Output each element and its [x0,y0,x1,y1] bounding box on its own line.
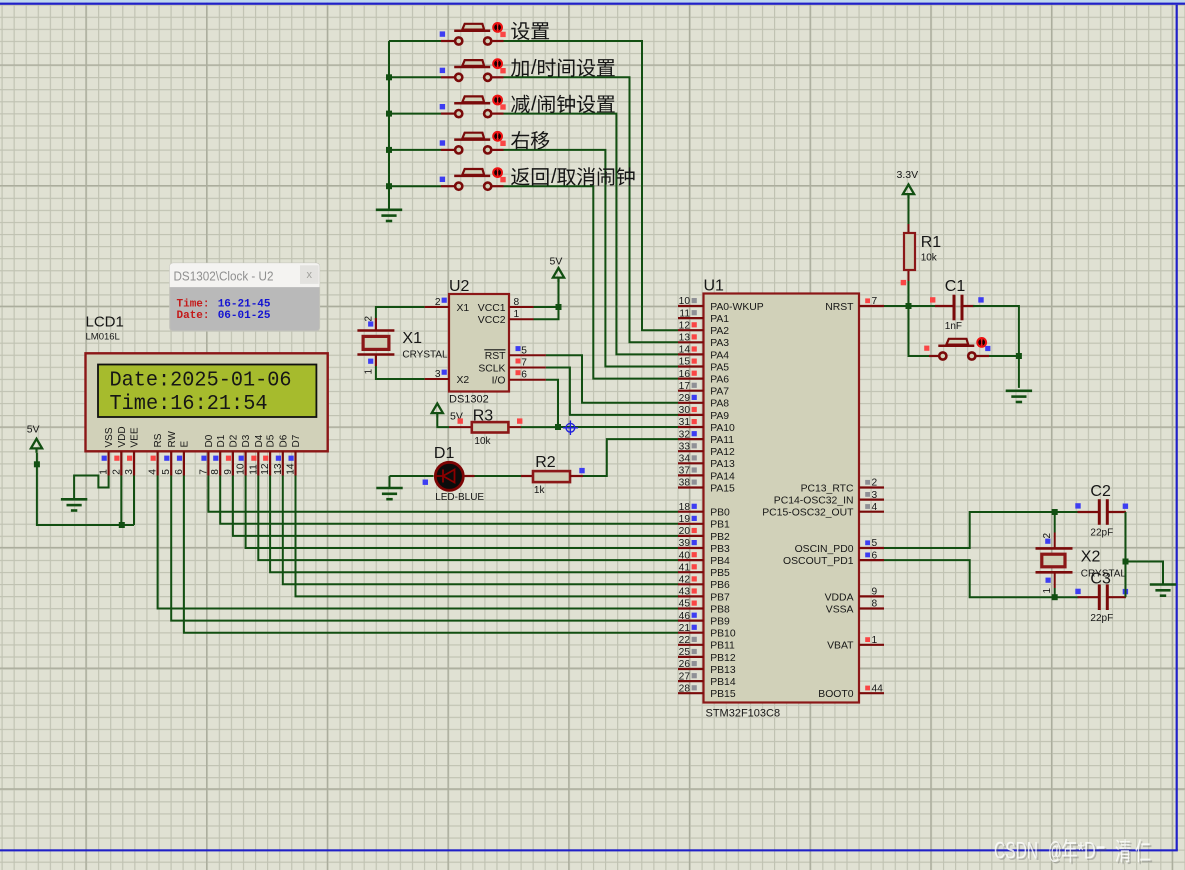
svg-text:PB15: PB15 [710,689,736,700]
wire X2 pin2 up [1054,512,1056,533]
svg-text:1: 1 [872,635,878,646]
wire NRST to C1 [884,305,936,307]
svg-text:27: 27 [679,671,691,682]
watermark CSDN [996,839,1152,866]
svg-text:VEE: VEE [130,427,141,447]
LCD pin D2 (9) [223,434,240,475]
svg-text:41: 41 [679,562,691,573]
C2 squares [1075,503,1128,509]
label 减/闹钟设置 [511,94,615,116]
svg-text:26: 26 [679,659,691,670]
svg-text:E: E [180,441,191,448]
node I/O R3 junction [555,424,561,430]
svg-text:39: 39 [679,538,691,549]
svg-text:DS1302: DS1302 [449,394,489,406]
svg-text:D4: D4 [254,434,265,447]
svg-text:12: 12 [679,320,691,331]
svg-text:LM016L: LM016L [86,332,120,343]
LCD pin D1 (8) [210,434,227,475]
U1 pin VSSA (8) [826,599,884,616]
svg-text:19: 19 [679,514,691,525]
svg-text:PA15: PA15 [710,483,735,494]
svg-text:10k: 10k [474,436,491,447]
sheet border top strip [0,0,1185,3]
svg-text:STM32F103C8: STM32F103C8 [706,708,781,720]
wire RST to PA8 [546,355,678,403]
svg-text:1: 1 [514,309,520,320]
svg-text:VDDA: VDDA [825,592,854,603]
wire ground to D1 [390,475,434,477]
wire button2 left [389,76,441,78]
cursor crosshair [563,421,578,436]
svg-text:PB12: PB12 [710,653,736,664]
svg-text:/: / [531,94,537,116]
svg-text:13: 13 [273,463,284,475]
U1 pin PA15 (38) [678,478,735,495]
node marker red button5 [500,177,505,182]
svg-text:1: 1 [364,369,375,375]
svg-text:PC13_RTC: PC13_RTC [801,483,854,494]
svg-text:PA13: PA13 [710,459,735,470]
svg-text:PB10: PB10 [710,629,736,640]
svg-text:8: 8 [872,599,878,610]
R3 squares [458,418,523,423]
node marker blue button3 [440,104,445,109]
U2 pin state squares [442,298,521,376]
svg-text:PA7: PA7 [710,387,729,398]
resistor R2 right lead [570,475,583,477]
wire D1 to R2 [475,475,522,477]
X2 pin squares [1045,539,1051,583]
crystal X1 [357,318,394,366]
svg-text:PA3: PA3 [710,338,729,349]
wire VCC1 to 5V [534,282,559,307]
wire SCLK to PA9 [546,368,678,415]
U1 pin PA13 (34) [678,454,735,471]
svg-text:D1: D1 [434,445,455,462]
svg-text:3.3V: 3.3V [897,169,919,181]
wire X1 top to U2 [376,307,425,318]
svg-text:29: 29 [679,393,691,404]
svg-text:PA12: PA12 [710,447,735,458]
svg-text:C3: C3 [1090,571,1111,588]
R2 left lead [521,475,533,477]
IC U1 STM32F103C8 body [704,294,860,703]
svg-text:5V: 5V [27,424,40,436]
label 返回/取消闹钟 [511,166,634,188]
node marker blue button4 [440,140,445,145]
svg-text:R2: R2 [535,454,556,471]
power 5V LCD [27,424,42,453]
U1 pin PB11 (22) [678,635,735,652]
svg-text:2: 2 [435,297,441,308]
wire VCC2 join [534,307,559,319]
svg-text:RST: RST [485,351,506,362]
wire X2 pin1 down [1054,588,1056,597]
U1 pin PA1 (11) [678,308,729,325]
U1 pin PA9 (30) [678,405,729,422]
popup time date text [177,298,271,322]
wire R1 to NRST node [908,281,910,306]
wire X1 bottom to U2 [376,366,425,379]
wire LCD RS to U1 [158,476,678,609]
wire C1 right down [973,306,1019,388]
svg-text:PA2: PA2 [710,326,729,337]
U1 pin PB6 (42) [678,575,730,592]
node marker blue button5 [440,177,445,182]
svg-text:42: 42 [679,575,691,586]
U1 pin PB8 (45) [678,599,730,616]
svg-text:1: 1 [99,469,110,475]
wire LCD D1 to U1 [220,476,678,524]
U1 pin PB5 (41) [678,562,730,579]
wire 5V to R3 [437,418,449,428]
resistor R2 [533,471,570,482]
ground D1 [376,476,402,499]
svg-text:SCLK: SCLK [478,363,505,374]
LCD pin VDD (2) [111,426,128,475]
svg-text:D6: D6 [278,434,289,447]
power 3.3V [897,169,919,199]
LCD pin D3 (10) [236,434,253,475]
svg-text:CRYSTAL: CRYSTAL [402,350,448,361]
sheet border right edge [1176,5,1178,850]
wire button left bus vertical [388,41,390,210]
push button SW5 [441,167,504,190]
LCD pin VEE (3) [124,427,141,475]
U1 pin OSCOUT_PD1 (6) [783,550,884,567]
wire button3 to PA4 [504,114,679,355]
wire VEE down [133,476,135,526]
svg-text:PC14-OSC32_IN: PC14-OSC32_IN [774,496,854,507]
svg-text:1nF: 1nF [945,321,962,332]
svg-text:X2: X2 [1081,549,1101,566]
reset button squares [924,346,990,352]
resistor R3 leads [449,426,472,428]
node NRST junction [906,303,912,309]
U2 pin names [457,303,507,387]
node VDD junction [119,522,125,528]
wire VSS to ground [74,476,109,500]
svg-text:*D: *D [1078,837,1096,864]
svg-text:PB7: PB7 [710,592,730,603]
node bus junctions [386,74,392,189]
svg-text:D3: D3 [241,434,252,447]
wire 5V to VDD VEE [37,453,134,525]
svg-text:PA1: PA1 [710,314,729,325]
popup DS1302 Clock window [170,263,320,331]
svg-text:BOOT0: BOOT0 [818,689,853,700]
svg-text:RS: RS [153,433,164,447]
node X2 top junction [1052,509,1058,515]
wire button5 left [389,185,441,187]
wire button4 to PA5 [504,150,679,367]
U1 pin PB12 (25) [678,647,736,664]
power 5V U2 [550,256,565,283]
svg-text:45: 45 [679,599,691,610]
svg-text:33: 33 [679,441,691,452]
U1 pin VBAT (1) [827,635,884,652]
U1 pin PA5 (15) [678,357,729,374]
svg-text:10: 10 [679,296,691,307]
node marker red button1 [500,32,505,37]
U1 pin PB15 (28) [678,683,736,700]
wire C2 right down [1125,512,1127,562]
U1 pin PC14-OSC32_IN (3) [774,490,884,507]
U2 pin SCLK (7) [509,367,546,369]
node X2 bottom junction [1052,594,1058,600]
svg-text:D1: D1 [216,434,227,447]
svg-text:4: 4 [872,502,878,513]
LCD pin D7 (14) [286,434,303,475]
node marker blue button1 [440,31,445,36]
svg-text:C2: C2 [1090,483,1111,500]
svg-text:9: 9 [872,587,878,598]
svg-text:PB8: PB8 [710,604,730,615]
svg-text:Time:: Time: [177,298,210,310]
svg-text:VDD: VDD [117,426,128,447]
svg-text:31: 31 [679,417,691,428]
wire D1 lead right [463,475,475,477]
svg-text:44: 44 [872,683,884,694]
wire LCD RW to U1 [171,476,678,621]
svg-text:PB0: PB0 [710,508,730,519]
svg-text:/: / [551,166,557,188]
svg-text:PB3: PB3 [710,544,730,555]
svg-text:NRST: NRST [825,302,854,313]
svg-text:5: 5 [521,345,527,356]
svg-text:PB13: PB13 [710,665,736,676]
LCD pin D5 (12) [260,434,277,475]
svg-text:PA0-WKUP: PA0-WKUP [710,302,764,313]
U1 pin PA14 (37) [678,466,735,483]
svg-text:LCD1: LCD1 [86,314,124,331]
U1 pin PB4 (40) [678,550,730,567]
U1 pin PC13_RTC (2) [801,478,884,495]
svg-text:PA9: PA9 [710,411,729,422]
wire button1 left [389,40,441,42]
U1 pin PB2 (20) [678,526,730,543]
wire C3 right up [1125,562,1127,598]
svg-text:PA14: PA14 [710,471,735,482]
wire I/O to PA10 [546,380,678,427]
svg-text:34: 34 [679,454,691,465]
svg-text:2: 2 [872,478,878,489]
node C2 C3 junction [1123,559,1129,565]
svg-text:8: 8 [210,469,221,475]
wire LCD D5 to U1 [270,476,678,573]
svg-text:14: 14 [679,345,691,356]
svg-text:16: 16 [679,369,691,380]
svg-text:PB9: PB9 [710,617,730,628]
label 加/时间设置 [511,57,615,79]
U1 pin PA12 (33) [678,441,735,458]
push button SW3 [441,95,504,118]
ground X2 [1150,585,1176,596]
U2 pin VCC2 (1) [509,318,534,320]
X1 pin numbers rotated [364,316,375,375]
svg-text:18: 18 [679,502,691,513]
svg-text:11: 11 [679,308,690,319]
wire button3 left [389,113,441,115]
svg-text:38: 38 [679,478,691,489]
svg-text:D7: D7 [291,434,302,447]
svg-text:VCC1: VCC1 [478,303,506,314]
node marker red button3 [500,104,505,109]
push button SW1 [441,22,504,45]
svg-text:25: 25 [679,647,691,658]
svg-text:VSS: VSS [104,427,115,447]
X1 pin squares [368,321,373,363]
svg-text:12: 12 [260,463,271,475]
svg-text:7: 7 [521,358,527,369]
svg-text:5V: 5V [550,256,563,268]
U1 pin BOOT0 (44) [818,683,884,700]
wire LCD D7 to U1 [296,476,679,597]
svg-text:Time:16:21:54: Time:16:21:54 [110,393,268,416]
svg-text:3: 3 [435,369,441,380]
svg-text:13: 13 [679,333,691,344]
wire button1 to PA2 [504,41,679,330]
svg-text:37: 37 [679,466,691,477]
C1 squares [930,297,984,302]
svg-text:Date:: Date: [177,310,210,322]
label 右移 [511,131,549,149]
resistor R3 [472,422,509,432]
svg-text:D2: D2 [229,434,240,447]
svg-text:8: 8 [514,297,520,308]
U2 pin numbers [435,297,527,381]
svg-text:7: 7 [198,469,209,475]
svg-text:17: 17 [679,381,691,392]
svg-text:32: 32 [679,429,691,440]
U1 pin PB0 (18) [678,502,730,519]
svg-text:R1: R1 [921,234,942,251]
svg-text:OSCIN_PD0: OSCIN_PD0 [795,544,854,555]
node marker red button4 [500,141,505,146]
U1 pin NRST (7) [825,296,884,313]
svg-text:DS1302\Clock - U2: DS1302\Clock - U2 [174,269,274,283]
svg-text:PC15-OSC32_OUT: PC15-OSC32_OUT [762,508,854,519]
wire button5 to PA6 [504,186,679,378]
svg-text:10k: 10k [921,253,938,264]
push button reset [929,337,989,360]
U1 pin PA7 (17) [678,381,729,398]
svg-text:22pF: 22pF [1090,613,1113,624]
U1 pin PA6 (16) [678,369,729,386]
U1 pin PB1 (19) [678,514,730,531]
LCD pin E (6) [174,441,191,476]
node reset ground junction [1016,353,1022,359]
wire OSCOUT to X2 bottom [884,560,1079,597]
wire OSCIN to X2 top [884,512,1079,548]
U1 pin PA8 (29) [678,393,729,410]
svg-text:9: 9 [223,469,234,475]
U1 pin PB14 (27) [678,671,736,688]
svg-text:21: 21 [679,623,691,634]
svg-text:06-01-25: 06-01-25 [218,310,271,322]
wire LCD D0 to U1 [208,476,678,512]
svg-text:@: @ [1048,837,1061,864]
svg-text:OSCOUT_PD1: OSCOUT_PD1 [783,556,854,567]
U1 pin PA3 (13) [678,333,729,350]
node marker blue button2 [440,68,445,73]
U1 pin PA11 (32) [678,429,734,446]
crystal X2 [1036,533,1073,589]
LCD pin VSS (1) [99,427,116,475]
svg-text:X1: X1 [402,330,422,347]
U2 pin RST (5) [509,354,546,356]
label 设置 [511,22,549,40]
U1 pin PA2 (12) [678,320,729,337]
node VCC junction [556,304,562,310]
svg-text:PB6: PB6 [710,580,730,591]
svg-text:Date:2025-01-06: Date:2025-01-06 [110,369,292,392]
LCD pin D0 (7) [198,434,215,475]
svg-text:VSSA: VSSA [826,604,854,615]
wire VDD down [120,476,122,526]
svg-text:U1: U1 [704,278,725,295]
svg-text:PA5: PA5 [710,362,729,373]
svg-text:LED-BLUE: LED-BLUE [435,492,484,503]
svg-text:PB5: PB5 [710,568,730,579]
wire R2 to PA11 [583,439,678,476]
U1 pin PA0-WKUP (10) [678,296,764,313]
wire 3.3V to R1 [908,199,910,225]
U1 pin PB3 (39) [678,538,730,555]
U1 pin PA4 (14) [678,345,729,362]
svg-text:5: 5 [161,469,172,475]
svg-text:6: 6 [521,370,527,381]
svg-text:PA4: PA4 [710,350,729,361]
node 5V tap [34,461,40,467]
U1 pin VDDA (9) [825,587,884,604]
svg-text:PB14: PB14 [710,677,736,688]
svg-text:16-21-45: 16-21-45 [218,298,271,310]
R2 blue square [579,468,584,473]
LCD pin RS (4) [148,433,165,475]
svg-text:6: 6 [174,469,185,475]
U2 pin I/O (6) [509,379,546,381]
svg-text:46: 46 [679,611,691,622]
svg-text:U2: U2 [449,278,470,295]
LCD1 screen [98,365,316,418]
svg-text:PA11: PA11 [710,435,734,446]
svg-text:PA6: PA6 [710,375,729,386]
capacitor C2 [1078,499,1126,525]
push button SW4 [441,131,504,154]
wire button2 to PA3 [504,77,679,342]
svg-text:C1: C1 [945,278,966,295]
svg-text:28: 28 [679,683,691,694]
LCD pin RW (5) [161,430,178,475]
svg-text:x: x [306,269,312,281]
wire LCD D2 to U1 [233,476,678,536]
U1 pin PB10 (21) [678,623,736,640]
svg-text:CSDN: CSDN [994,837,1038,864]
svg-text:R3: R3 [473,408,494,425]
U1 pin PB7 (43) [678,587,730,604]
svg-text:22pF: 22pF [1090,528,1113,539]
resistor R1 [904,233,915,270]
svg-text:20: 20 [679,526,691,537]
capacitor C3 [1078,584,1126,610]
svg-text:I/O: I/O [492,376,506,387]
svg-text:3: 3 [872,490,878,501]
svg-text:7: 7 [872,296,878,307]
svg-text:5: 5 [872,538,878,549]
wire LCD E to U1 [184,476,678,633]
